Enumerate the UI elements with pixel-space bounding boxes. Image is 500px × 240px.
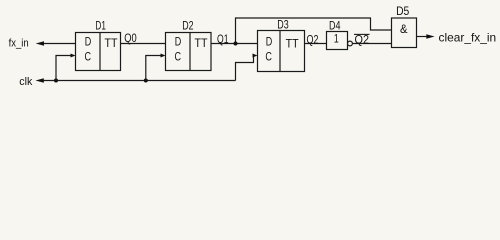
svg-text:TT: TT bbox=[286, 36, 300, 50]
svg-text:D3: D3 bbox=[277, 17, 289, 31]
flip-flop D3 box bbox=[258, 31, 305, 72]
svg-text:C: C bbox=[265, 49, 272, 63]
svg-text:D4: D4 bbox=[329, 18, 341, 32]
svg-text:D: D bbox=[85, 35, 92, 49]
flip-flop D2 box bbox=[166, 33, 212, 71]
flip-flop D1 box bbox=[76, 33, 121, 71]
junction dot clk to D2.C bbox=[144, 79, 148, 83]
svg-text:D5: D5 bbox=[396, 4, 409, 18]
wire clk branch to D2.C bbox=[146, 56, 162, 81]
svg-text:D2: D2 bbox=[182, 18, 194, 32]
junction dot on Q1 wire bbox=[234, 42, 238, 46]
arrowhead into D1.C bbox=[71, 54, 76, 58]
svg-text:fx_in: fx_in bbox=[9, 38, 29, 50]
arrowhead at fx_in label (points left) bbox=[36, 41, 44, 46]
svg-text:Q2: Q2 bbox=[307, 32, 319, 46]
arrowhead into D2.C bbox=[161, 54, 166, 58]
AND gate D5 box bbox=[392, 18, 417, 48]
inverter D4 box bbox=[327, 32, 348, 50]
inverter D4 output bubble bbox=[348, 41, 353, 46]
svg-text:Q1: Q1 bbox=[217, 32, 229, 46]
wire fx_in to D1.D bbox=[41, 43, 76, 45]
wire Q2: D3.Q to D4 input bbox=[305, 43, 327, 45]
wire Q1: D2.Q to D3.D bbox=[211, 43, 258, 45]
wire clk staircase to D3.C bbox=[236, 56, 255, 81]
overline of Q2-bar bbox=[354, 33, 370, 35]
wire clk rail bbox=[41, 80, 236, 82]
wire clk branch to D1.C bbox=[56, 56, 72, 81]
junction dot clk to D1.C bbox=[54, 79, 58, 83]
arrowhead at clear_fx_in (points right) bbox=[426, 34, 434, 39]
wire Q0: D1.Q to D2.D bbox=[121, 43, 166, 45]
arrowhead at clk label (points left) bbox=[36, 78, 44, 83]
svg-text:1: 1 bbox=[334, 32, 339, 46]
svg-text:TT: TT bbox=[195, 36, 209, 50]
svg-text:&: & bbox=[400, 22, 408, 36]
arrowhead into D3.C bbox=[253, 54, 258, 58]
wire Q2bar: D4 bubble to D5 input bbox=[352, 43, 391, 45]
wire Q1 branch up to top rail bbox=[236, 18, 392, 44]
svg-text:D: D bbox=[266, 35, 273, 49]
svg-text:D: D bbox=[175, 35, 182, 49]
svg-text:clear_fx_in: clear_fx_in bbox=[439, 31, 497, 45]
svg-text:Q0: Q0 bbox=[124, 31, 137, 45]
svg-text:D1: D1 bbox=[95, 18, 106, 32]
svg-text:clk: clk bbox=[19, 76, 32, 88]
svg-text:C: C bbox=[175, 49, 182, 63]
svg-text:TT: TT bbox=[105, 36, 119, 50]
wire D5 output to clear_fx_in bbox=[417, 36, 429, 38]
svg-text:C: C bbox=[85, 49, 92, 63]
